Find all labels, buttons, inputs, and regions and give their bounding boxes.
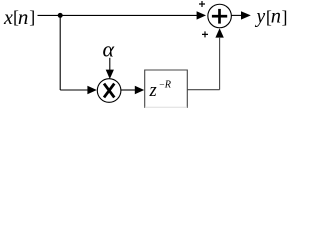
svg-text:z: z — [149, 81, 157, 101]
svg-text:n: n — [271, 5, 281, 27]
svg-text:R: R — [164, 80, 172, 91]
svg-text:y: y — [255, 7, 266, 28]
svg-text:]: ] — [29, 7, 35, 27]
svg-text:x: x — [3, 7, 13, 29]
svg-text:]: ] — [282, 7, 288, 27]
svg-text:n: n — [18, 5, 29, 29]
svg-text:α: α — [103, 37, 115, 62]
